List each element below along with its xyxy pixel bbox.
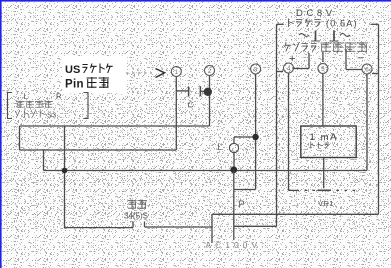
svg-text:R: R — [56, 92, 62, 101]
svg-text:(0.5A): (0.5A) — [326, 19, 358, 29]
svg-text:1 mA: 1 mA — [310, 132, 339, 143]
svg-text:L: L — [24, 92, 28, 101]
svg-text:Pin: Pin — [65, 79, 84, 91]
svg-text:−: − — [357, 53, 363, 65]
svg-text:C: C — [188, 100, 194, 110]
svg-text:US: US — [65, 64, 80, 76]
svg-text:P: P — [239, 199, 245, 209]
svg-text:+: + — [289, 53, 295, 65]
svg-text:AC100V: AC100V — [206, 240, 262, 250]
svg-text:34(5)S: 34(5)S — [124, 212, 148, 221]
svg-text:VR1: VR1 — [318, 199, 334, 208]
svg-text:DC8V: DC8V — [296, 8, 336, 19]
svg-text:L: L — [218, 143, 223, 152]
svg-text:S3: S3 — [47, 111, 56, 120]
